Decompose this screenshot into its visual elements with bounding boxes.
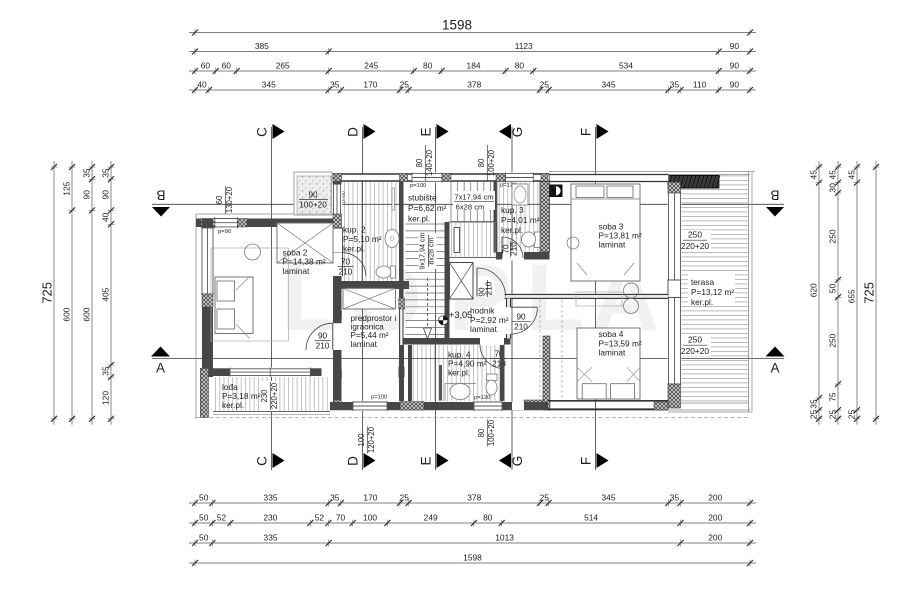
svg-text:100: 100 — [357, 433, 366, 447]
svg-text:ker.pl.: ker.pl. — [501, 225, 523, 235]
svg-text:170: 170 — [363, 79, 377, 89]
svg-text:laminat: laminat — [283, 266, 310, 276]
svg-text:534: 534 — [619, 60, 633, 70]
svg-text:kup. 2: kup. 2 — [343, 225, 366, 235]
svg-text:70: 70 — [336, 512, 346, 522]
svg-text:25: 25 — [540, 79, 550, 89]
svg-text:170: 170 — [363, 492, 377, 502]
svg-text:7x17,94 cm: 7x17,94 cm — [454, 192, 493, 201]
svg-text:40: 40 — [100, 212, 110, 222]
svg-text:p=100: p=100 — [371, 395, 387, 401]
svg-text:90: 90 — [100, 190, 110, 200]
svg-text:405: 405 — [100, 287, 110, 301]
svg-text:110: 110 — [693, 79, 707, 89]
svg-text:90: 90 — [318, 332, 328, 341]
svg-text:50: 50 — [199, 512, 209, 522]
svg-text:C: C — [255, 127, 270, 137]
svg-text:laminat: laminat — [351, 340, 378, 349]
svg-text:laminat: laminat — [599, 348, 626, 358]
svg-text:9x17,94 cm: 9x17,94 cm — [418, 232, 427, 269]
svg-text:40: 40 — [197, 79, 207, 89]
svg-text:378: 378 — [467, 492, 481, 502]
svg-text:90: 90 — [81, 190, 91, 200]
svg-text:60: 60 — [222, 60, 232, 70]
svg-text:210: 210 — [485, 281, 494, 295]
svg-text:25: 25 — [540, 492, 550, 502]
svg-text:25: 25 — [400, 79, 410, 89]
svg-text:80: 80 — [423, 60, 433, 70]
svg-text:F: F — [579, 457, 594, 465]
svg-text:D: D — [346, 456, 361, 466]
svg-text:75: 75 — [827, 392, 837, 402]
svg-text:45: 45 — [827, 170, 837, 180]
svg-text:laminat: laminat — [470, 324, 497, 334]
svg-text:220+20: 220+20 — [681, 346, 710, 356]
svg-text:25: 25 — [808, 409, 818, 419]
svg-text:E: E — [419, 127, 434, 136]
svg-text:120: 120 — [100, 391, 110, 405]
svg-text:210: 210 — [514, 323, 528, 332]
svg-text:725: 725 — [39, 282, 54, 304]
svg-text:p=90: p=90 — [218, 229, 231, 235]
svg-text:kup. 3: kup. 3 — [501, 205, 524, 215]
svg-text:35: 35 — [670, 492, 680, 502]
svg-text:385: 385 — [255, 41, 269, 51]
svg-text:60: 60 — [201, 60, 211, 70]
svg-text:80: 80 — [483, 512, 493, 522]
svg-text:70: 70 — [341, 258, 351, 267]
svg-text:50: 50 — [199, 532, 209, 542]
svg-text:1123: 1123 — [515, 41, 533, 51]
svg-text:laminat: laminat — [599, 240, 626, 250]
svg-text:90: 90 — [730, 60, 740, 70]
svg-text:100+20: 100+20 — [487, 149, 496, 176]
svg-text:80: 80 — [477, 158, 486, 167]
svg-text:terasa: terasa — [691, 277, 714, 287]
svg-text:250: 250 — [827, 333, 837, 347]
svg-text:ker.pl.: ker.pl. — [222, 400, 244, 410]
svg-text:30: 30 — [827, 183, 837, 193]
svg-text:B: B — [770, 188, 779, 203]
svg-text:35: 35 — [330, 79, 340, 89]
svg-text:P=5,10 m²: P=5,10 m² — [343, 234, 382, 244]
svg-text:90: 90 — [308, 191, 318, 200]
svg-text:G: G — [510, 127, 525, 138]
svg-text:35: 35 — [808, 399, 818, 409]
svg-text:200: 200 — [708, 512, 722, 522]
svg-text:620: 620 — [808, 283, 818, 297]
svg-text:90: 90 — [730, 79, 740, 89]
svg-text:P=13,12 m²: P=13,12 m² — [691, 287, 734, 297]
svg-text:230: 230 — [260, 389, 269, 403]
svg-text:G: G — [510, 456, 525, 467]
svg-text:249: 249 — [424, 512, 438, 522]
svg-text:1013: 1013 — [495, 532, 514, 542]
svg-text:D: D — [346, 127, 361, 137]
svg-text:stubište: stubište — [408, 193, 437, 203]
svg-text:200: 200 — [708, 492, 722, 502]
svg-text:35: 35 — [81, 168, 91, 178]
svg-text:ker.pl.: ker.pl. — [343, 244, 365, 254]
svg-text:140+20: 140+20 — [425, 149, 434, 176]
svg-text:1598: 1598 — [442, 18, 472, 33]
svg-text:250: 250 — [827, 229, 837, 243]
svg-text:35: 35 — [100, 168, 110, 178]
svg-text:80: 80 — [515, 60, 525, 70]
svg-text:90: 90 — [516, 313, 526, 322]
svg-text:125: 125 — [61, 181, 71, 195]
svg-text:1598: 1598 — [463, 552, 482, 562]
svg-text:200: 200 — [708, 532, 722, 542]
svg-text:210: 210 — [339, 268, 353, 277]
svg-text:F: F — [579, 128, 594, 136]
svg-text:35: 35 — [100, 366, 110, 376]
svg-text:60: 60 — [215, 195, 224, 204]
svg-text:100: 100 — [363, 512, 377, 522]
svg-text:184: 184 — [467, 60, 481, 70]
svg-text:25: 25 — [827, 409, 837, 419]
svg-text:90: 90 — [730, 41, 740, 51]
svg-text:345: 345 — [602, 492, 616, 502]
svg-text:P=4,01 m²: P=4,01 m² — [501, 215, 540, 225]
svg-text:600: 600 — [81, 307, 91, 321]
svg-text:45: 45 — [808, 170, 818, 180]
svg-text:A: A — [156, 361, 165, 376]
svg-text:80: 80 — [477, 428, 486, 437]
svg-text:8x28 cm: 8x28 cm — [427, 237, 436, 264]
svg-text:52: 52 — [217, 512, 227, 522]
svg-text:25: 25 — [846, 409, 856, 419]
svg-text:655: 655 — [846, 289, 856, 303]
svg-text:600: 600 — [61, 307, 71, 321]
svg-text:C: C — [255, 456, 270, 466]
svg-text:35: 35 — [670, 79, 680, 89]
svg-text:725: 725 — [861, 282, 876, 304]
svg-text:130+20: 130+20 — [225, 186, 234, 213]
svg-text:245: 245 — [364, 60, 378, 70]
svg-text:ker.pl.: ker.pl. — [408, 214, 430, 224]
svg-text:514: 514 — [584, 512, 598, 522]
svg-text:345: 345 — [602, 79, 616, 89]
svg-text:25: 25 — [400, 492, 410, 502]
svg-text:210: 210 — [510, 242, 519, 256]
svg-text:P=6,62 m²: P=6,62 m² — [408, 203, 447, 213]
svg-text:50: 50 — [199, 492, 209, 502]
svg-text:+3,05: +3,05 — [449, 310, 472, 320]
svg-text:220+20: 220+20 — [681, 241, 710, 251]
svg-text:ker.pl.: ker.pl. — [691, 297, 713, 307]
svg-text:220+20: 220+20 — [270, 382, 279, 409]
svg-text:45: 45 — [846, 170, 856, 180]
svg-text:50: 50 — [827, 284, 837, 294]
svg-text:250: 250 — [688, 335, 702, 345]
svg-text:378: 378 — [467, 79, 481, 89]
svg-text:6x28 cm: 6x28 cm — [456, 202, 485, 211]
svg-text:100+20: 100+20 — [299, 201, 327, 210]
svg-text:230: 230 — [263, 512, 277, 522]
svg-text:345: 345 — [262, 79, 276, 89]
svg-text:265: 265 — [276, 60, 290, 70]
svg-text:ker.pl.: ker.pl. — [448, 368, 470, 378]
svg-text:120+20: 120+20 — [367, 426, 376, 453]
svg-text:52: 52 — [315, 512, 325, 522]
svg-text:80: 80 — [415, 158, 424, 167]
svg-text:p=100: p=100 — [410, 183, 426, 189]
svg-text:210: 210 — [316, 342, 330, 351]
svg-text:250: 250 — [688, 230, 702, 240]
svg-text:100+20: 100+20 — [487, 419, 496, 446]
svg-text:B: B — [156, 188, 165, 203]
svg-text:p=120: p=120 — [474, 395, 490, 401]
svg-text:E: E — [419, 456, 434, 465]
svg-text:35: 35 — [330, 492, 340, 502]
svg-text:335: 335 — [264, 492, 278, 502]
svg-text:335: 335 — [264, 532, 278, 542]
svg-text:A: A — [770, 361, 779, 376]
